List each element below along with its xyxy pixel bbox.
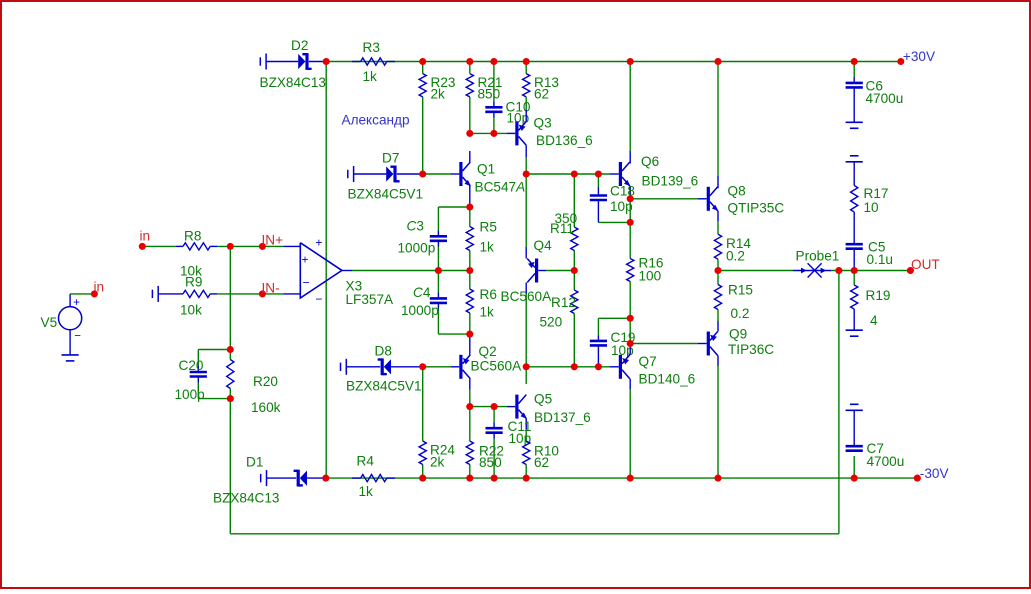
svg-text:R17: R17	[864, 186, 889, 201]
junction top rail 5	[523, 58, 530, 65]
junction feedback top node	[835, 267, 842, 274]
wire R22 column	[469, 407, 471, 479]
transistor Q8 QTIP35C	[708, 184, 784, 222]
wire feedback column lower	[229, 399, 231, 534]
junction C10 bottom node	[490, 130, 497, 137]
resistor R10 62	[523, 441, 560, 470]
svg-text:Q5: Q5	[534, 392, 552, 407]
transistor Q2 BC560A	[461, 334, 522, 389]
svg-text:C4: C4	[413, 285, 431, 300]
svg-text:IN+: IN+	[262, 232, 284, 247]
junction R5/R6 node	[466, 267, 473, 274]
junction Q8 base node	[627, 195, 634, 202]
junction C3/C4 node	[435, 267, 442, 274]
wire op-amp output line	[342, 270, 470, 272]
node in (at V5)	[91, 280, 104, 298]
wire R12 column	[573, 271, 575, 367]
junction R11 top node	[571, 170, 578, 177]
wire R8 to IN+ to op-amp	[217, 245, 300, 247]
svg-text:+30V: +30V	[903, 49, 935, 64]
svg-text:Q4: Q4	[534, 238, 553, 253]
wire Q7 base line	[526, 366, 619, 368]
junction C11 bottom node	[491, 475, 498, 482]
transistor Q4 BC560A	[501, 238, 553, 304]
svg-text:62: 62	[534, 455, 549, 470]
capacitor C11 10p	[486, 419, 532, 446]
svg-text:R19: R19	[866, 288, 891, 303]
resistor R15 0.2	[714, 282, 753, 321]
diode D8 BZX84C5V1	[341, 344, 423, 394]
wire C20 branch bottom	[198, 383, 230, 399]
svg-text:R4: R4	[357, 453, 375, 468]
svg-text:0.2: 0.2	[726, 248, 745, 263]
svg-text:BC560A: BC560A	[501, 289, 553, 304]
wire Q7 collector to rail	[629, 389, 631, 478]
wire R14/R15 column	[717, 221, 719, 321]
svg-text:BZX84C13: BZX84C13	[260, 75, 327, 90]
capacitor C3 1000p	[398, 219, 448, 256]
wire Q1 emitter node line	[438, 206, 469, 208]
wire C20 branch top	[198, 350, 230, 367]
svg-text:520: 520	[540, 315, 563, 330]
resistor R4 1k	[352, 453, 395, 499]
svg-text:OUT: OUT	[911, 257, 940, 272]
svg-text:C3: C3	[407, 219, 424, 234]
ground below V5	[62, 355, 79, 361]
wire R9 to IN- to op-amp	[217, 293, 300, 295]
wire Q6 base line	[526, 173, 619, 175]
voltage source V5	[41, 294, 95, 355]
resistor R8 10k	[176, 228, 217, 278]
resistor R12 520	[540, 290, 578, 330]
wire Q4 emitter column	[525, 174, 527, 247]
resistor R11 350	[550, 211, 578, 251]
wire R16 bottom node to Q9 base node	[629, 318, 631, 343]
resistor R16 100	[627, 256, 664, 284]
svg-text:62: 62	[534, 87, 549, 102]
junction Q2 collector node	[466, 403, 473, 410]
junction top rail 1	[323, 58, 330, 65]
junction Q9 collector node	[714, 475, 721, 482]
svg-text:R12: R12	[551, 295, 576, 310]
svg-text:0.1u: 0.1u	[867, 252, 893, 267]
wire C18 top lead	[597, 174, 599, 190]
ground above C7	[846, 404, 863, 446]
resistor R20 160k	[227, 360, 281, 416]
wire probe to OUT	[831, 270, 910, 272]
wire Q3 collector lead	[525, 157, 527, 174]
wire feedback column upper	[229, 246, 231, 349]
junction Q4 base node	[571, 267, 578, 274]
capacitor C10 10p	[485, 99, 531, 125]
resistor R9 10k	[152, 275, 217, 318]
wire R11 column	[573, 174, 575, 271]
junction R8 feedback node	[227, 243, 234, 250]
wire C19 top line	[598, 318, 630, 335]
wire Q2 collector lead	[469, 390, 471, 407]
svg-text:R6: R6	[480, 287, 497, 302]
wire R24 column lower	[422, 465, 424, 479]
svg-text:2k: 2k	[430, 455, 445, 470]
junction D1/R4 node	[322, 475, 329, 482]
svg-text:1k: 1k	[480, 305, 495, 320]
wire R20 column	[229, 350, 231, 399]
svg-text:-30V: -30V	[920, 466, 949, 481]
node IN-	[259, 280, 280, 297]
svg-text:1k: 1k	[363, 69, 378, 84]
resistor R14 0.2	[714, 234, 751, 263]
capacitor C6 4700u	[846, 77, 904, 122]
node in (at R8)	[139, 229, 150, 250]
svg-text:1000p: 1000p	[401, 303, 439, 318]
svg-text:4: 4	[870, 313, 878, 328]
wire feedback right column	[838, 271, 840, 534]
probe Probe1	[793, 248, 839, 277]
resistor R24 2k	[419, 441, 455, 470]
capacitor C20 100p	[175, 358, 207, 402]
svg-text:850: 850	[479, 455, 502, 470]
svg-text:Q6: Q6	[641, 154, 659, 169]
wire Q5 collector lead	[525, 367, 527, 384]
svg-text:Q7: Q7	[639, 354, 657, 369]
wire R24 column upper	[422, 367, 424, 441]
wire C4 bottom line	[438, 333, 469, 335]
svg-text:Q1: Q1	[477, 162, 495, 177]
wire Q4 collector column	[525, 294, 527, 367]
diode D7 BZX84C5V1	[348, 151, 424, 202]
svg-text:BZX84C5V1: BZX84C5V1	[348, 187, 424, 202]
svg-text:BD136_6: BD136_6	[536, 133, 593, 148]
junction top rail 8	[851, 58, 858, 65]
node -30V	[914, 466, 949, 482]
wire Q5 base line	[470, 406, 516, 408]
svg-text:R5: R5	[480, 220, 497, 235]
svg-text:V5: V5	[41, 315, 58, 330]
svg-text:R20: R20	[253, 374, 278, 389]
junction D7/R23 node	[419, 170, 426, 177]
transistor Q6 BD139_6	[620, 154, 698, 199]
wire R6 column	[469, 271, 471, 335]
svg-text:in: in	[140, 229, 151, 244]
wire R21 column	[469, 62, 471, 134]
junction top rail 7	[714, 58, 721, 65]
wire R10 column	[525, 429, 527, 478]
capacitor C19 10p	[590, 330, 636, 367]
diode D1 BZX84C13	[213, 455, 326, 506]
junction C20 bottom node	[227, 395, 234, 402]
junction R10 bottom node	[523, 475, 530, 482]
svg-text:10: 10	[864, 200, 880, 215]
svg-text:BZX84C5V1: BZX84C5V1	[346, 379, 422, 394]
svg-text:1k: 1k	[359, 484, 374, 499]
wire C3 column	[437, 207, 439, 271]
junction C18 bottom node	[627, 219, 634, 226]
svg-text:D8: D8	[375, 344, 392, 359]
wire -30V bottom rail	[326, 477, 918, 479]
junction C11 top node	[491, 403, 498, 410]
svg-text:R11: R11	[550, 221, 574, 236]
svg-text:4700u: 4700u	[867, 454, 905, 469]
svg-text:LF357A: LF357A	[346, 292, 395, 307]
junction R16 bottom node	[627, 315, 634, 322]
svg-text:in: in	[94, 280, 105, 295]
svg-text:Q2: Q2	[479, 344, 497, 359]
resistor R21 850	[466, 74, 502, 102]
svg-text:+: +	[302, 252, 309, 266]
resistor R13 62	[523, 74, 559, 102]
svg-text:−: −	[74, 331, 81, 343]
resistor R17 10	[851, 186, 889, 245]
wire C10 column	[493, 62, 495, 134]
svg-text:TIP36C: TIP36C	[728, 342, 774, 357]
junction C18 top node	[595, 170, 602, 177]
wire Q6 emitter node to C18 node	[629, 199, 631, 223]
svg-text:BD137_6: BD137_6	[534, 410, 591, 425]
wire C6 lead	[853, 62, 855, 78]
junction C19 bottom node	[595, 363, 602, 370]
wire R5 column	[469, 207, 471, 271]
op-amp X3 LF357A	[300, 235, 394, 306]
junction output stage node	[714, 267, 721, 274]
svg-text:BC560A: BC560A	[471, 358, 523, 373]
diode D2 BZX84C13	[260, 38, 327, 90]
svg-text:1000p: 1000p	[398, 241, 436, 256]
junction zobel node	[851, 267, 858, 274]
svg-text:Александр: Александр	[342, 113, 410, 128]
svg-text:Q3: Q3	[534, 116, 552, 131]
svg-text:R15: R15	[728, 282, 753, 297]
svg-text:D2: D2	[291, 38, 308, 53]
junction R24 bottom node	[419, 475, 426, 482]
junction C7 bottom node	[851, 475, 858, 482]
svg-text:4700u: 4700u	[866, 91, 904, 106]
svg-text:R8: R8	[184, 228, 201, 243]
wire Q9 collector to rail	[717, 366, 719, 478]
wire Q6 collector to rail	[629, 62, 631, 164]
wire C7 lead	[853, 456, 855, 478]
junction Q7 collector node	[627, 475, 634, 482]
wire +30V top rail	[326, 61, 901, 63]
wire C18 bottom line	[598, 221, 630, 223]
wire Q1 collector line	[470, 132, 516, 134]
wire Q1 base line	[423, 173, 460, 175]
svg-text:BD139_6: BD139_6	[642, 174, 699, 189]
svg-text:IN-: IN-	[262, 280, 280, 295]
junction top rail 6	[627, 58, 634, 65]
node +30V	[897, 49, 935, 65]
wire C11 column	[493, 407, 495, 479]
svg-text:−: −	[303, 276, 310, 290]
ground below R19	[846, 330, 863, 336]
wire C4 column	[437, 271, 439, 335]
junction Q1 collector node	[466, 130, 473, 137]
wire vertical D2-junction to D1-junction	[325, 62, 327, 479]
junction R22 bottom node	[466, 475, 473, 482]
svg-text:BZX84C13: BZX84C13	[213, 491, 280, 506]
wire Q2 base line	[423, 366, 460, 368]
junction Q3 collector node	[523, 170, 530, 177]
wire Q8 base line	[630, 198, 707, 200]
junction Q2 emitter node	[466, 331, 473, 338]
svg-text:100p: 100p	[175, 387, 205, 402]
svg-text:BD140_6: BD140_6	[639, 372, 696, 387]
junction R12 bottom node	[571, 363, 578, 370]
node IN+	[259, 232, 283, 250]
svg-text:Q9: Q9	[729, 327, 747, 342]
svg-text:10k: 10k	[180, 303, 202, 318]
ground above R17	[846, 156, 863, 186]
svg-text:R9: R9	[185, 275, 202, 290]
svg-text:D7: D7	[382, 151, 399, 166]
svg-text:1k: 1k	[480, 240, 495, 255]
svg-text:Probe1: Probe1	[796, 248, 840, 263]
capacitor C5 0.1u	[846, 240, 893, 271]
capacitor C7 4700u	[846, 441, 905, 469]
svg-text:C20: C20	[179, 358, 204, 373]
resistor R23 2k	[419, 74, 455, 102]
junction Q5 collector node	[523, 363, 530, 370]
resistor R22 850	[466, 441, 504, 470]
wire Q4 base lead	[538, 270, 574, 272]
resistor R6 1k	[466, 287, 497, 320]
label Александр	[342, 113, 410, 128]
transistor Q1 BC547A	[461, 151, 525, 207]
wire in to R8	[142, 245, 176, 247]
wire R13 column	[525, 62, 527, 111]
svg-text:QTIP35C: QTIP35C	[728, 201, 785, 216]
junction top rail 3	[466, 58, 473, 65]
junction Q1 emitter node	[466, 203, 473, 210]
svg-text:2k: 2k	[431, 87, 446, 102]
junction Q9 base node	[627, 340, 634, 347]
node OUT	[907, 257, 940, 274]
junction top rail 2	[419, 58, 426, 65]
transistor Q9 TIP36C	[708, 321, 774, 366]
wire Q8 collector to rail	[717, 62, 719, 189]
svg-text:−: −	[315, 292, 322, 306]
resistor R19 4	[851, 271, 891, 331]
svg-text:Q8: Q8	[728, 184, 746, 199]
transistor Q3 BD136_6	[517, 110, 593, 157]
transistor Q7 BD140_6	[620, 344, 695, 390]
capacitor C4 1000p	[401, 285, 447, 318]
svg-text:+: +	[315, 235, 322, 249]
junction C20 top node	[227, 346, 234, 353]
capacitor C18 10p	[590, 183, 635, 222]
transistor Q5 BD137_6	[517, 392, 591, 429]
svg-text:R3: R3	[363, 40, 380, 55]
wire R16 column	[629, 222, 631, 318]
junction D8/R24 node	[419, 363, 426, 370]
svg-text:BC547A: BC547A	[475, 180, 526, 195]
wire R23 column upper	[422, 62, 424, 175]
svg-text:0.2: 0.2	[731, 306, 750, 321]
svg-text:850: 850	[478, 87, 501, 102]
wire feedback bottom	[230, 533, 839, 535]
junction top rail 4	[490, 58, 497, 65]
svg-text:D1: D1	[246, 455, 263, 470]
resistor R5 1k	[466, 220, 497, 255]
svg-text:100: 100	[639, 268, 662, 283]
wire Q9 base line	[630, 343, 707, 345]
svg-text:+: +	[73, 297, 80, 309]
wire output to probe	[718, 270, 793, 272]
svg-text:160k: 160k	[251, 400, 281, 415]
ground below C6	[846, 122, 863, 128]
resistor R3 1k	[352, 40, 395, 84]
